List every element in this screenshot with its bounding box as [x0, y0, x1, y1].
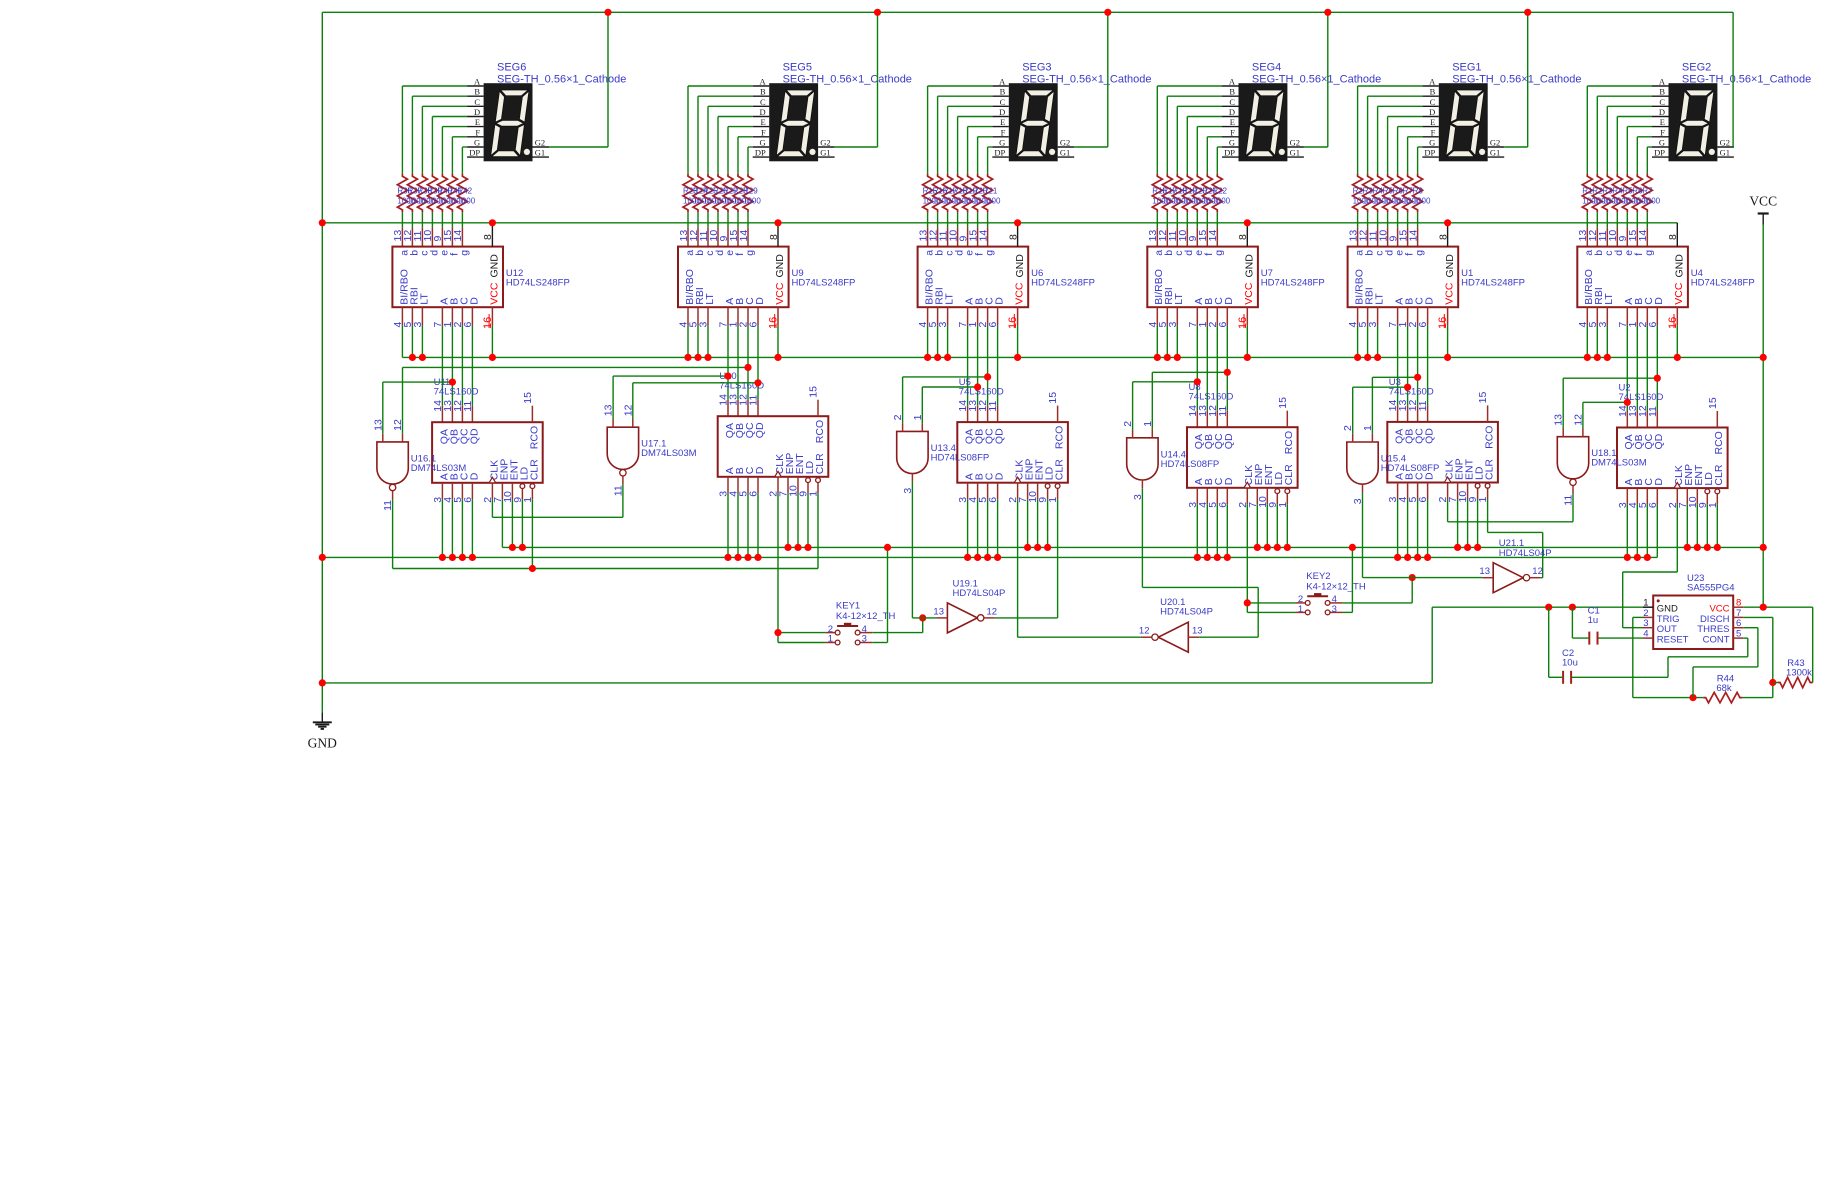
wire SEG1 seg G vertical: [1417, 147, 1419, 174]
wire decoder U9 B to counter QB: [737, 326, 739, 400]
wire SEG6 G2 to riser: [549, 146, 608, 148]
counter U10 pin 6 stub: [757, 477, 759, 494]
wire KEY2 pin3 right: [1342, 611, 1352, 613]
svg-text:1300k: 1300k: [1786, 668, 1812, 679]
display SEG4 body: [1239, 83, 1288, 161]
resistor R42: [457, 174, 467, 213]
display SEG3 segments: [1016, 90, 1055, 157]
wire resistor R17 to decoder pin: [1166, 212, 1168, 227]
svg-text:RCO: RCO: [1054, 426, 1066, 449]
wire U15.4 out to U21 input: [1363, 577, 1483, 579]
gate U17.1 body output bubble: [620, 470, 626, 476]
display SEG1 pin D stub: [1422, 116, 1439, 118]
wire SEG5 common riser: [877, 12, 879, 147]
counter U3 pin 6 stub: [1427, 483, 1429, 500]
junction GND bus decoder U6 pin8: [1014, 219, 1021, 226]
wire SEG4 seg E vertical: [1196, 127, 1198, 174]
wire R43 left join: [1773, 682, 1778, 684]
decoder U1 pin 15 stub: [1407, 228, 1409, 247]
svg-text:12: 12: [987, 606, 998, 617]
counter U11 pin 7 stub: [501, 483, 503, 500]
svg-text:QD: QD: [994, 428, 1006, 444]
wire C2 to CONT horizontal: [1668, 656, 1748, 658]
svg-text:VCC: VCC: [774, 282, 786, 305]
junction AD bus U10 D: [754, 554, 761, 561]
svg-text:LT: LT: [1173, 293, 1185, 305]
display SEG6 pin D stub: [467, 116, 484, 118]
wire resistor R37 to decoder pin: [411, 212, 413, 227]
wire counter U11 B to AD bus: [451, 499, 453, 557]
wire decoder U4 GND pin8: [1676, 223, 1678, 247]
junction AD bus U2 A: [1624, 554, 1631, 561]
counter U5 pin 1 stub: [1057, 483, 1059, 500]
wire resistor R21 to decoder pin: [987, 212, 989, 227]
svg-text:SEG5: SEG5: [783, 62, 812, 74]
wire to U20.1 input: [1199, 636, 1258, 638]
counter U11 pin 13 stub: [451, 406, 453, 423]
display SEG6 pin F stub: [467, 136, 484, 138]
counter U11 pin 10 stub: [511, 483, 513, 500]
wire decoder U6 A to counter QA: [967, 326, 969, 406]
wire U13.4 output down: [911, 482, 913, 618]
gate U16.1 body output bubble: [389, 484, 395, 490]
junction AD bus U8 C: [1214, 554, 1221, 561]
svg-text:G: G: [474, 138, 480, 148]
wire decoder U6 GND pin8: [1017, 223, 1019, 247]
counter U8 pin 6 stub: [1226, 488, 1228, 505]
wire SEG4 seg D vertical: [1186, 117, 1188, 174]
wire counter U8 LD to EN bus: [1276, 504, 1278, 547]
gate U18.1 output stub: [1572, 486, 1574, 494]
wire KEY2 pin3 riser to EN bus: [1351, 547, 1353, 612]
wire resistor R19 to decoder pin: [1186, 212, 1188, 227]
wire 555 OUT line horizontal: [1623, 571, 1678, 573]
wire VCC rail: [1762, 225, 1764, 608]
counter U8 pin 3 stub: [1196, 488, 1198, 505]
wire resistor R42 to decoder pin: [461, 212, 463, 227]
wire SEG4 seg C vertical: [1176, 106, 1178, 174]
display SEG6 pin G stub: [467, 146, 484, 148]
wire DISCH drop: [1772, 617, 1774, 697]
counter U3 pin 4 stub: [1407, 483, 1409, 500]
wire resistor R3 to decoder pin: [1367, 212, 1369, 227]
svg-text:E: E: [1660, 117, 1665, 127]
svg-text:3: 3: [1167, 322, 1179, 328]
wire U18.1 pin13 to U2.QD horizontal: [1563, 377, 1657, 379]
wire counter U5 ENP to EN bus: [1027, 499, 1029, 547]
resistor R16: [1152, 174, 1162, 213]
wire SEG5 seg C horizontal: [708, 105, 753, 107]
display SEG5 pin F stub: [753, 136, 770, 138]
junction VCC bus U4 BI/RBO: [1584, 354, 1591, 361]
junction U18.1 pin13 to U2.QD: [1654, 375, 1661, 382]
svg-text:C: C: [1229, 97, 1235, 107]
wire decoder U9 VCC to bus: [777, 326, 779, 358]
resistor R6: [1393, 174, 1403, 213]
gate U17.1 input pin 12 stub: [632, 419, 634, 427]
wire decoder U7 VCC to bus: [1246, 326, 1248, 358]
svg-text:3: 3: [1367, 322, 1379, 328]
svg-text:GND: GND: [1014, 254, 1026, 278]
svg-text:GND: GND: [774, 254, 786, 278]
wire KEY1 pin1 left: [778, 642, 825, 644]
wire decoder U1 BI/RBO to VCC bus: [1357, 326, 1359, 358]
wire SEG6 seg D horizontal: [432, 116, 467, 118]
counter U5 pin 11 stub: [997, 406, 999, 423]
wire SEG5 seg A horizontal: [688, 85, 753, 87]
display SEG5 pin G1 stub: [818, 156, 835, 158]
junction AD bus U11 B: [449, 554, 456, 561]
wire SEG6 seg E horizontal: [442, 126, 467, 128]
junction VCC bus U1 RBI: [1364, 354, 1371, 361]
wire decoder U1 D to counter QD: [1427, 326, 1429, 406]
resistor R41: [447, 174, 457, 213]
wire SEG5 seg A vertical: [687, 86, 689, 174]
timer U23 left pin 1 stub: [1643, 606, 1653, 608]
gate U14.4 body: [1127, 438, 1158, 480]
wire SEG1 seg A vertical: [1357, 86, 1359, 174]
display SEG5 pin D stub: [753, 116, 770, 118]
svg-text:G2: G2: [820, 138, 830, 148]
svg-text:LT: LT: [418, 293, 430, 305]
wire resistor R5 to decoder pin: [1387, 212, 1389, 227]
decoder U12 pin 2 stub: [461, 307, 463, 325]
wire SEG1 seg E horizontal: [1398, 126, 1423, 128]
decoder U6 pin 1 stub: [977, 307, 979, 325]
counter U8 pin 1 stub: [1286, 488, 1288, 505]
decoder U4 pin 5 stub: [1596, 307, 1598, 325]
wire decoder U6 C to counter QC: [987, 326, 989, 406]
counter U3 pin 2 stub: [1447, 483, 1449, 500]
resistor R5: [1622, 174, 1632, 213]
svg-text:R21: R21: [983, 187, 998, 196]
decoder U1 pin 2 stub: [1417, 307, 1419, 325]
counter U3 CLK wedge: [1444, 477, 1451, 483]
wire decoder U7 GND pin8: [1246, 223, 1248, 247]
wire SEG6 seg G vertical: [461, 147, 463, 174]
display SEG4 pin E stub: [1222, 126, 1239, 128]
wire SEG2 seg G vertical: [1646, 147, 1648, 174]
decoder U6 pin 9 stub: [967, 228, 969, 247]
junction top bus col2: [874, 9, 881, 16]
counter U3 pin 9 stub: [1477, 483, 1479, 500]
wire 555 OUT riser: [1622, 572, 1624, 628]
junction VCC bus U7 RBI: [1164, 354, 1171, 361]
decoder U12 pin 16 underline: [488, 314, 490, 328]
decoder U6 pin 10 stub: [957, 228, 959, 247]
wire decoder U7 C to counter QC: [1216, 326, 1218, 411]
wire U2.CLK drop: [1676, 505, 1678, 572]
decoder U6 pin 4 stub: [927, 307, 929, 325]
junction AD bus U8 D: [1224, 554, 1231, 561]
decoder U9 pin 6 stub: [757, 307, 759, 325]
junction VCC bus U9 pin16: [774, 354, 781, 361]
svg-text:1000: 1000: [983, 197, 1001, 206]
junction VCC bus U1 BI/RBO: [1354, 354, 1361, 361]
junction left rail / GND bus: [319, 219, 326, 226]
counter U10 LD bubble: [806, 478, 811, 483]
wire resistor R19 to decoder pin: [967, 212, 969, 227]
junction AD bus U11 C: [459, 554, 466, 561]
decoder U1 pin 13 stub: [1357, 228, 1359, 247]
display SEG5 pin DP stub: [753, 156, 770, 158]
counter U3 pin 13 stub: [1407, 405, 1409, 422]
wire counter U3 ENP to EN bus: [1457, 499, 1459, 547]
decoder U9 pin 5 stub: [697, 307, 699, 325]
wire bottom GND bus: [322, 682, 1432, 684]
wire U3.CLR line: [1488, 531, 1543, 533]
wire SEG4 seg D horizontal: [1187, 116, 1222, 118]
display SEG4 pin D stub: [1222, 116, 1239, 118]
junction left rail / A-D bus: [319, 554, 326, 561]
counter U5 pin 7 stub: [1027, 483, 1029, 500]
svg-text:13: 13: [1479, 566, 1490, 577]
svg-text:3: 3: [412, 322, 424, 328]
display SEG5 pin C stub: [753, 105, 770, 107]
junction U13.4 pin1 to U5.QB: [974, 383, 981, 390]
display SEG3 pin E stub: [992, 126, 1009, 128]
svg-text:DP: DP: [994, 148, 1005, 158]
svg-text:14: 14: [452, 230, 464, 242]
decoder U7 pin 5 stub: [1166, 307, 1168, 325]
wire resistor R15 to decoder pin: [927, 212, 929, 227]
wire SEG3 seg F vertical: [977, 137, 979, 174]
decoder U1 pin 16 stub: [1447, 307, 1449, 325]
counter U3 pin 10 stub: [1467, 483, 1469, 500]
svg-text:DM74LS03M: DM74LS03M: [1591, 458, 1647, 469]
svg-text:15: 15: [522, 392, 534, 404]
wire U18.1 pin12 to U2.QA horizontal: [1583, 401, 1627, 403]
wire SEG5 seg B vertical: [697, 96, 699, 174]
svg-text:16: 16: [482, 317, 494, 329]
wire SEG2 common riser: [1732, 12, 1734, 147]
counter U5 LD bubble: [1045, 484, 1050, 489]
decoder U4 pin 4 stub: [1586, 307, 1588, 325]
decoder U12 pin 11 stub: [421, 228, 423, 247]
junction AD bus U5 D: [994, 554, 1001, 561]
wire resistor R3 to decoder pin: [1606, 212, 1608, 227]
junction VCC bus U9 RBI: [694, 354, 701, 361]
svg-text:DP: DP: [1424, 148, 1435, 158]
decoder U1 pin 1 stub: [1407, 307, 1409, 325]
svg-text:E: E: [1230, 117, 1235, 127]
counter U10 pin 1 stub: [817, 477, 819, 494]
counter U3 pin 12 stub: [1417, 405, 1419, 422]
decoder U12 pin 6 stub: [471, 307, 473, 325]
gate U18.1 input pin 13 stub: [1562, 429, 1564, 437]
counter U10 CLR bubble: [816, 478, 821, 483]
wire THRES drop2: [1692, 667, 1694, 698]
svg-text:G2: G2: [535, 138, 545, 148]
svg-text:F: F: [475, 127, 480, 137]
svg-text:D: D: [1424, 297, 1436, 305]
svg-text:G1: G1: [1060, 148, 1070, 158]
decoder U12 pin 1 stub: [451, 307, 453, 325]
decoder U6 pin 16 underline: [1013, 314, 1015, 328]
counter U8 pin 7 stub: [1256, 488, 1258, 505]
wire SEG4 G2 to riser: [1304, 146, 1328, 148]
junction EN bus U11 ENT: [509, 544, 516, 551]
inverter U19.1 bubble: [978, 615, 984, 621]
wire counter U5 B to AD bus: [977, 499, 979, 557]
svg-text:K4-12×12_TH: K4-12×12_TH: [836, 611, 896, 622]
display SEG3 body: [1009, 83, 1058, 161]
gate U13.4 body: [897, 431, 928, 473]
svg-text:6: 6: [987, 322, 999, 328]
counter U11 pin 15 RCO stub: [531, 406, 533, 423]
junction AD bus U8 B: [1204, 554, 1211, 561]
counter U8 pin 15 RCO stub: [1286, 411, 1288, 428]
gate U17.1 body: [607, 427, 638, 469]
wire U15.4 pin2 to U3.QB horizontal: [1353, 386, 1408, 388]
gate U16.1 body: [377, 442, 408, 484]
resistor R37: [407, 174, 417, 213]
display SEG4 pin G1 stub: [1287, 156, 1304, 158]
counter U8 pin 11 stub: [1226, 411, 1228, 428]
svg-text:F: F: [1001, 127, 1006, 137]
wire counter U3 D to AD bus: [1427, 499, 1429, 557]
wire 555 GND line: [1432, 606, 1643, 608]
decoder U4 pin 16 stub: [1676, 307, 1678, 325]
key KEY1 stub right row: [860, 632, 872, 634]
wire U14.4 pin2 to U8.QA vertical: [1132, 382, 1134, 430]
gate U15.4 output stub: [1362, 484, 1364, 492]
counter U3 pin 7 stub: [1457, 483, 1459, 500]
counter U3 pin 5 stub: [1417, 483, 1419, 500]
decoder U4 pin 1 stub: [1636, 307, 1638, 325]
display SEG1 pin G2 stub: [1488, 146, 1505, 148]
svg-text:DP: DP: [1224, 148, 1235, 158]
wire decoder U6 VCC to bus: [1017, 326, 1019, 358]
junction top bus col4: [1324, 9, 1331, 16]
wire counter U10 LD to EN bus: [807, 493, 809, 547]
svg-text:74LS160D: 74LS160D: [1189, 392, 1234, 403]
wire SEG1 seg A horizontal: [1358, 85, 1423, 87]
counter U2 pin 11 stub: [1656, 411, 1658, 428]
wire VCC to R43 drop: [1812, 607, 1814, 682]
timer U23 right pin 8 stub: [1733, 606, 1743, 608]
junction VCC bus U4 pin16: [1674, 354, 1681, 361]
display SEG1 pin B stub: [1422, 95, 1439, 97]
key KEY1 stub left row: [825, 632, 835, 634]
svg-text:1: 1: [1298, 604, 1303, 615]
svg-text:C: C: [1430, 97, 1436, 107]
junction GND bus decoder U7 pin8: [1244, 219, 1251, 226]
wire decoder U1 C to counter QC: [1417, 326, 1419, 406]
svg-text:g: g: [984, 250, 996, 256]
wire decoder U7 RBI to VCC bus: [1166, 326, 1168, 358]
svg-text:THRES: THRES: [1697, 624, 1729, 635]
junction EN bus U11 LD: [519, 544, 526, 551]
counter U11 CLR bubble: [530, 484, 535, 489]
svg-text:D: D: [468, 472, 480, 480]
wire SEG6 seg G horizontal: [462, 146, 467, 148]
wire resistor R2 to decoder pin: [1596, 212, 1598, 227]
wire U16.1 pin12 to U10.QC vertical: [402, 367, 404, 433]
junction VCC bus U4 RBI: [1594, 354, 1601, 361]
wire SEG1 seg C horizontal: [1378, 105, 1423, 107]
resistor R29: [743, 174, 753, 213]
decoder U1 pin 9 stub: [1397, 228, 1399, 247]
svg-text:6: 6: [987, 497, 999, 503]
inverter U19.1: [947, 603, 977, 633]
wire C2 right: [1571, 676, 1668, 678]
counter U2 pin 5 stub: [1646, 488, 1648, 505]
wire resistor R7 to decoder pin: [1407, 212, 1409, 227]
svg-text:VCC: VCC: [1444, 282, 1456, 305]
svg-text:G1: G1: [535, 148, 545, 158]
junction VCC bus U1 LT: [1374, 354, 1381, 361]
junction AD bus U3 B: [1404, 554, 1411, 561]
wire U14.4 pin1 to U8.QD vertical: [1151, 372, 1153, 429]
wire counter U2 B to AD bus: [1636, 505, 1638, 558]
svg-text:CLR: CLR: [1713, 464, 1725, 485]
svg-text:HD74LS248FP: HD74LS248FP: [1031, 278, 1095, 289]
wire SEG6 common riser: [607, 12, 609, 147]
svg-text:GND: GND: [1444, 254, 1456, 278]
svg-text:6: 6: [1217, 502, 1229, 508]
wire counter U11 D to AD bus: [471, 499, 473, 557]
svg-text:SEG-TH_0.56×1_Cathode: SEG-TH_0.56×1_Cathode: [1252, 73, 1381, 85]
counter U10 body: [718, 416, 829, 477]
wire U5.CLR drop: [1057, 499, 1059, 618]
decoder U6 pin 2 stub: [987, 307, 989, 325]
wire SEG3 seg D vertical: [957, 117, 959, 174]
junction VCC bus U9 LT: [704, 354, 711, 361]
wire U13.4 pin2 to U5.QC vertical: [902, 377, 904, 423]
display SEG2 segments: [1675, 90, 1714, 157]
wire U18.1 output down: [1572, 494, 1574, 522]
wire counter U11 A to AD bus: [441, 499, 443, 557]
wire resistor R20 to decoder pin: [1196, 212, 1198, 227]
counter U5 pin 15 RCO stub: [1057, 406, 1059, 423]
wire resistor R22 to decoder pin: [1216, 212, 1218, 227]
wire counter U3 A to AD bus: [1397, 499, 1399, 557]
svg-text:A: A: [474, 77, 481, 87]
junction THRES/TRIG/R44: [1689, 694, 1696, 701]
svg-text:11: 11: [748, 395, 760, 406]
svg-text:HD74LS248FP: HD74LS248FP: [792, 278, 856, 289]
resistor R7: [1642, 174, 1652, 213]
junction VCC bus U6 BI/RBO: [924, 354, 931, 361]
svg-text:D: D: [760, 107, 766, 117]
junction EN bus U8 ENP: [1254, 544, 1261, 551]
counter U2 CLR bubble: [1715, 489, 1720, 494]
key KEY1 contact right: [855, 630, 860, 635]
svg-text:A: A: [760, 77, 767, 87]
wire counter U2 LD to EN bus: [1706, 505, 1708, 548]
decoder U1 body: [1348, 247, 1459, 308]
display SEG3 pin G1 stub: [1058, 156, 1075, 158]
counter U8 CLK wedge: [1244, 482, 1251, 488]
wire decoder U9 D to counter QD: [757, 326, 759, 400]
decoder U6 body: [918, 247, 1029, 308]
wire SEG6 seg C vertical: [421, 106, 423, 174]
display SEG4 pin G2 stub: [1287, 146, 1304, 148]
wire left GND rail: [321, 12, 323, 712]
decoder U4 pin 2 stub: [1646, 307, 1648, 325]
svg-text:6: 6: [748, 322, 760, 328]
decoder U1 pin 5 stub: [1367, 307, 1369, 325]
svg-text:G1: G1: [1290, 148, 1300, 158]
decoder U1 pin 12 stub: [1367, 228, 1369, 247]
svg-text:3: 3: [1597, 322, 1609, 328]
wire counter U2 D to AD bus: [1656, 505, 1658, 558]
wire decoder U9 A to counter QA: [727, 326, 729, 400]
wire U10.CLR drop: [817, 493, 819, 568]
svg-text:16: 16: [1437, 317, 1449, 329]
svg-text:DM74LS03M: DM74LS03M: [411, 463, 467, 474]
